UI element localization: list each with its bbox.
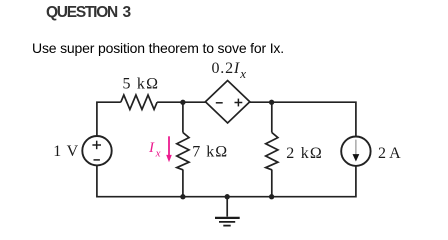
svg-text:7 kΩ: 7 kΩ <box>192 143 228 160</box>
svg-text:Ix: Ix <box>148 140 161 160</box>
svg-text:0.2Ix: 0.2Ix <box>212 60 247 81</box>
svg-text:5 kΩ: 5 kΩ <box>123 76 160 93</box>
svg-text:2 A: 2 A <box>378 145 401 162</box>
svg-text:2 kΩ: 2 kΩ <box>286 145 323 162</box>
svg-text:1 V: 1 V <box>53 143 79 160</box>
